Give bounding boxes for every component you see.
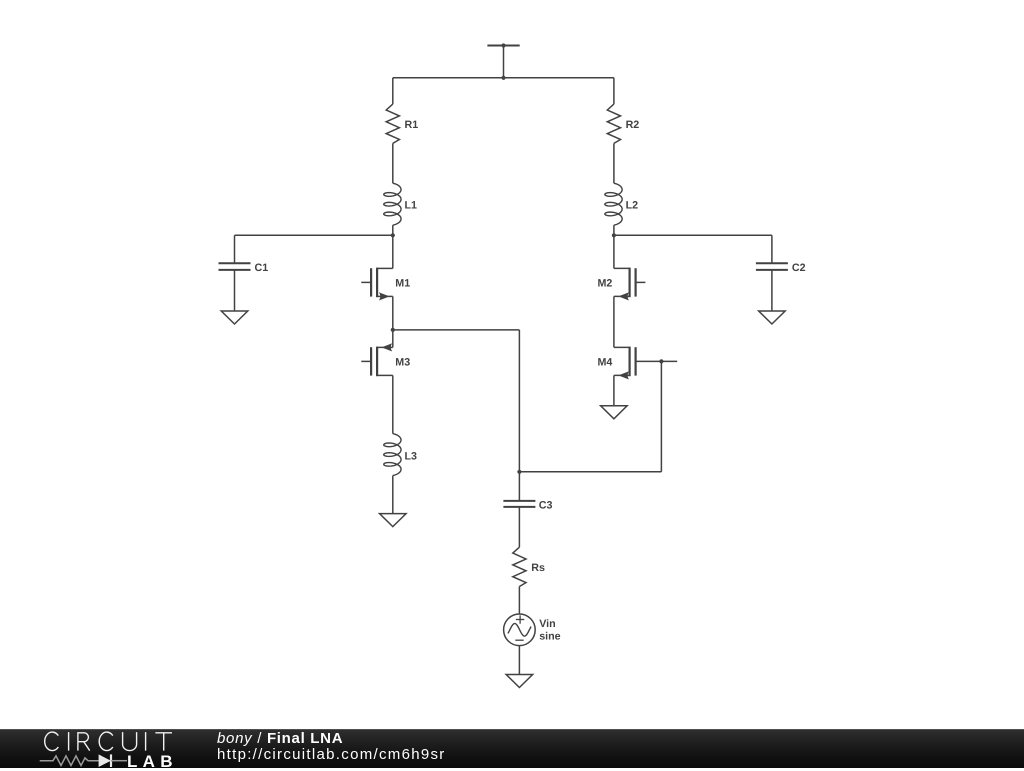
resistor Rs bbox=[513, 547, 526, 586]
ground (M4) bbox=[601, 406, 628, 419]
svg-text:Rs: Rs bbox=[531, 562, 545, 574]
inductor L3 bbox=[384, 434, 401, 476]
transistor M1 bbox=[377, 267, 393, 269]
CircuitLab logo: LAB bbox=[127, 753, 178, 770]
capacitor C2 bbox=[756, 262, 788, 264]
wire: mid column down to C3 node bbox=[518, 330, 520, 472]
svg-text:Vin: Vin bbox=[539, 618, 555, 630]
svg-text:C3: C3 bbox=[539, 499, 553, 511]
CircuitLab logo bbox=[0, 729, 200, 768]
resistor R2 bbox=[607, 104, 620, 143]
transistor M2 bbox=[614, 267, 630, 269]
logo wire left bbox=[40, 756, 99, 766]
wire: node to C2 bbox=[614, 234, 772, 236]
ground (Vin) bbox=[506, 675, 533, 688]
ground (L3) bbox=[380, 514, 407, 527]
wire: M4 source to ground bbox=[613, 375, 615, 405]
svg-text:L1: L1 bbox=[405, 200, 418, 212]
power supply rail V+ bar bbox=[487, 45, 519, 47]
wire: M1 source to node bbox=[392, 296, 394, 330]
node: M4 gate junction bbox=[659, 359, 663, 363]
wire: L1 to node bbox=[392, 225, 394, 235]
transistor M4 bbox=[614, 346, 630, 348]
wire: node to M3 top bbox=[392, 330, 394, 347]
inductor L2 bbox=[605, 183, 622, 225]
Vin sine wave bbox=[508, 624, 531, 637]
credit text bbox=[217, 731, 446, 763]
footer bar bbox=[0, 729, 1024, 768]
wire: C1 bottom lead bbox=[234, 270, 236, 311]
svg-text:C1: C1 bbox=[255, 262, 269, 274]
wire: node to C1 bbox=[235, 234, 393, 236]
wire: R2 to L2 bbox=[613, 143, 615, 183]
Vin plus sign bbox=[516, 619, 524, 621]
resistor R1 bbox=[386, 104, 399, 143]
node: M1 source / M3 / mid wire bbox=[391, 328, 395, 332]
logo word CIRCUIT bbox=[45, 732, 59, 751]
svg-text:R2: R2 bbox=[626, 119, 640, 131]
wire: C2 top lead bbox=[771, 235, 773, 263]
wire: rail to R1 bbox=[392, 78, 394, 104]
wire: V+ stem bbox=[503, 46, 505, 78]
transistor M3 bbox=[377, 346, 393, 348]
svg-text:R1: R1 bbox=[405, 119, 419, 131]
capacitor C3 bbox=[503, 500, 535, 502]
wire: C2 bottom lead bbox=[771, 270, 773, 311]
Vin minus sign bbox=[515, 639, 523, 641]
svg-text:sine: sine bbox=[539, 631, 560, 643]
wire: node to mid column (horizontal) bbox=[393, 329, 520, 331]
voltage source Vin circle bbox=[504, 614, 536, 646]
svg-text:L2: L2 bbox=[626, 200, 639, 212]
wire: node to M1 drain bbox=[392, 235, 394, 268]
inductor L1 bbox=[384, 183, 401, 225]
power supply node dot (top) bbox=[501, 43, 505, 47]
node: V+ / rail junction bbox=[501, 76, 505, 80]
logo diode bbox=[99, 754, 111, 767]
wire: M4 gate drop bbox=[660, 361, 662, 471]
node: L1 / C1 / M1 drain bbox=[391, 233, 395, 237]
wire: node to M2 drain bbox=[613, 235, 615, 268]
wire: R1 to L1 bbox=[392, 143, 394, 183]
svg-text:L3: L3 bbox=[405, 450, 418, 462]
wire: C3 to Rs bbox=[518, 507, 520, 547]
ground (C1) bbox=[221, 311, 248, 324]
wire: L3 to ground bbox=[392, 476, 394, 514]
wire: M2 source to M4 bbox=[613, 296, 615, 347]
svg-text:M3: M3 bbox=[395, 356, 410, 368]
wire: Vin to ground bbox=[518, 646, 520, 675]
wire: junction to C3 bbox=[518, 472, 520, 501]
wire: C1 top lead bbox=[234, 235, 236, 263]
wire: junction to M4 gate column bbox=[519, 471, 661, 473]
node: L2 / C2 / M2 drain bbox=[612, 233, 616, 237]
wire: M3 bottom to L3 bbox=[392, 375, 394, 433]
node: C3 / feedback junction bbox=[517, 470, 521, 474]
wire: top rail bbox=[393, 77, 614, 79]
svg-text:M2: M2 bbox=[598, 277, 613, 289]
wire: L2 to node bbox=[613, 225, 615, 235]
capacitor C1 bbox=[219, 262, 251, 264]
wire: Rs to Vin bbox=[518, 587, 520, 615]
svg-text:M4: M4 bbox=[598, 356, 613, 368]
wire: rail to R2 bbox=[613, 78, 615, 104]
svg-text:M1: M1 bbox=[395, 277, 410, 289]
ground (C2) bbox=[759, 311, 786, 324]
svg-text:C2: C2 bbox=[792, 262, 806, 274]
logo wire right bbox=[111, 760, 127, 762]
